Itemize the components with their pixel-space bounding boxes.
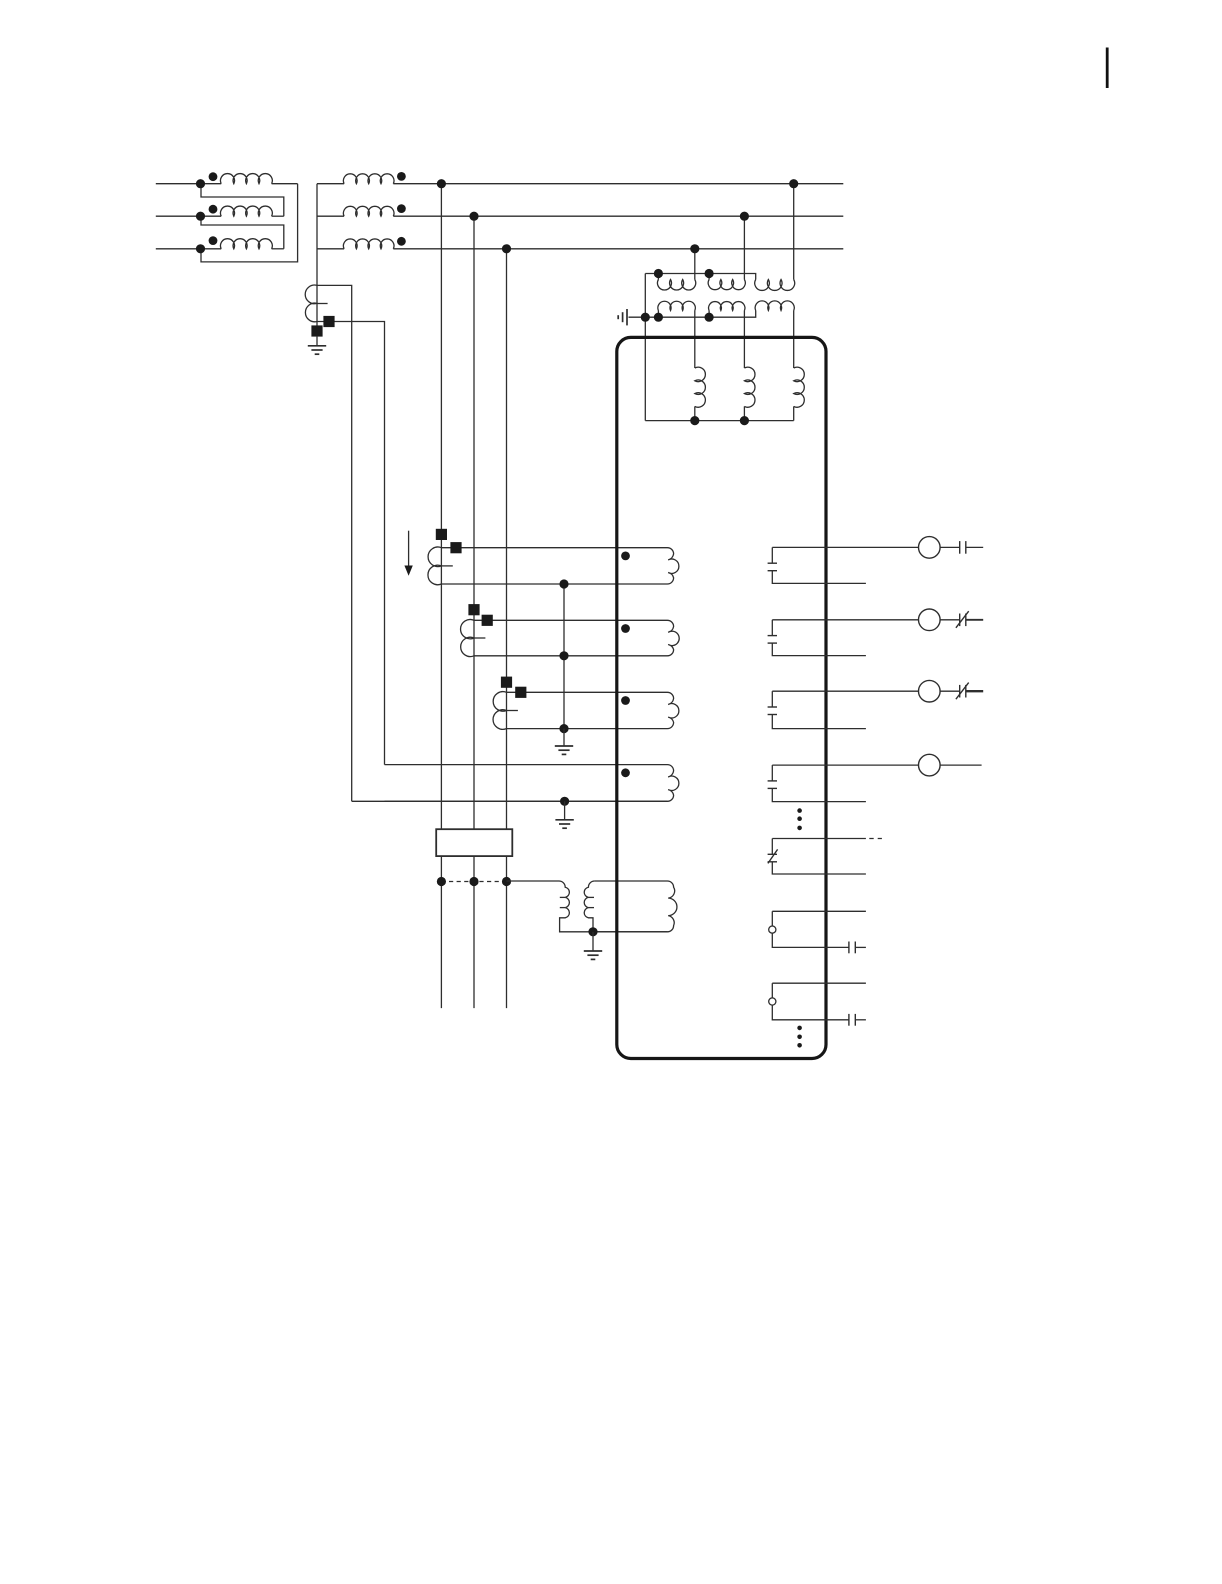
phase C bus line	[156, 248, 221, 250]
VT3 primary winding	[755, 280, 795, 291]
junction node coil common 2	[740, 416, 749, 425]
delta winding W3 (phase C primary)	[220, 239, 272, 249]
dashed tie across feeders	[441, 881, 506, 883]
junction node phase B / delta	[196, 212, 205, 221]
polarity square CT3 secondary	[515, 687, 526, 698]
CT3 secondary loop to relay input coil	[507, 692, 679, 728]
CT common tie wire	[563, 584, 565, 729]
polarity dot wye W4	[397, 172, 406, 181]
polarity dot relay input 4	[621, 768, 630, 777]
junction node VT2 secondary rail	[705, 313, 714, 322]
neutral CT secondary lead bottom	[317, 322, 385, 765]
VT primary tap wire phase A	[793, 184, 795, 280]
ground at transformer neutral	[316, 337, 318, 346]
relay case outline	[617, 337, 826, 1058]
output row 1 contact leads	[772, 546, 918, 548]
relay voltage input wire phase A	[793, 311, 795, 369]
contact slash row 2	[956, 611, 969, 628]
CT2 secondary loop to relay input coil	[474, 620, 679, 656]
output terminal contact row 3	[959, 685, 961, 698]
ground at row4 return	[564, 801, 566, 819]
relay voltage input wire phase C	[694, 311, 696, 369]
polarity dot relay input 1	[621, 552, 630, 561]
relay voltage coil common rail	[645, 420, 793, 422]
junction node VT tap phase A	[789, 179, 798, 188]
phase C feeder wire	[506, 249, 508, 829]
output row 2 contact leads	[772, 619, 918, 621]
junction node VT tap phase B	[740, 212, 749, 221]
aux transformer primary winding	[507, 881, 594, 932]
output row 3 contact leads	[772, 690, 918, 692]
delta closing wire W1 end to phase C junction	[201, 184, 298, 262]
target circle row 3	[919, 680, 941, 702]
neutral CT input loop to relay (row 4)	[385, 765, 679, 802]
neutral conductor below wye	[316, 285, 318, 337]
feeder wires below terminal block	[440, 856, 442, 1008]
aux transformer secondary winding	[584, 881, 594, 932]
output contact bars row 4	[768, 780, 777, 782]
wye winding W6 (phase C secondary) with leads	[317, 248, 344, 250]
junction node CT3 return	[559, 724, 568, 733]
ellipsis between rows 4 and 5	[797, 808, 802, 813]
wye winding W4 (phase A secondary) with leads	[317, 183, 344, 185]
VT2 primary winding	[708, 274, 710, 280]
junction node phase A / delta	[196, 179, 205, 188]
output row 6 contact leads	[772, 910, 866, 912]
junction node coil common 1	[690, 416, 699, 425]
output row 7 contact leads	[772, 982, 866, 984]
junction node row4 ground tap	[560, 797, 569, 806]
output terminal contact row 2	[959, 614, 961, 627]
neutral CT secondary arcs	[305, 285, 317, 322]
polarity square neutral CT secondary	[323, 316, 334, 327]
contact slash row 5	[768, 849, 778, 863]
ground at aux secondary	[592, 932, 594, 951]
junction node phase A feeder tap	[437, 179, 446, 188]
junction node VT secondary rail left	[641, 313, 650, 322]
contact slash row 3	[956, 683, 969, 700]
VT secondary ground rail	[629, 311, 756, 318]
wye neutral wire	[316, 184, 318, 286]
junction node dashed tie phase B	[469, 877, 478, 886]
VT2 secondary winding	[709, 302, 745, 311]
phase A bus line	[156, 183, 221, 185]
CT1 secondary loop to relay input coil	[441, 548, 678, 584]
trip direction arrow	[408, 531, 410, 567]
junction node VT tap phase C	[690, 244, 699, 253]
delta closing wire W2 end to phase A junction	[201, 184, 284, 217]
CT3 phase C secondary arcs	[493, 692, 506, 730]
VT primary tap wire phase C	[694, 249, 696, 280]
junction node VT1 primary rail	[654, 269, 663, 278]
polarity dot delta W3	[209, 236, 218, 245]
relay input coil V1	[695, 367, 706, 407]
VT primary neutral rail	[645, 274, 755, 280]
target circle row 1	[919, 537, 941, 559]
VT common down wire into relay	[644, 274, 646, 421]
junction node CT2 return	[559, 651, 568, 660]
junction node VT1 secondary rail	[654, 313, 663, 322]
output contact bars row 5	[768, 853, 777, 855]
phase B feeder wire	[473, 216, 475, 829]
output row 4 contact leads	[772, 764, 918, 766]
junction node phase C feeder tap	[502, 244, 511, 253]
relay input coil V2	[744, 367, 755, 407]
coil circle row 6	[771, 911, 773, 926]
polarity square neutral CT primary	[311, 325, 322, 336]
polarity square CT2 secondary	[482, 615, 493, 626]
phase A feeder wire	[440, 184, 442, 830]
polarity dot wye W6	[397, 237, 406, 246]
ellipsis below row 7	[797, 1026, 802, 1031]
output contact bars row 1	[768, 562, 777, 564]
aux secondary loop to relay input coil (row 5)	[595, 881, 677, 932]
coil circle row 7	[771, 983, 773, 998]
polarity square CT2 primary	[468, 604, 479, 615]
polarity dot delta W1	[209, 172, 218, 181]
output row 5 contact leads	[772, 838, 866, 840]
output contact bars row 2	[768, 635, 777, 637]
delta winding W1 (phase A primary)	[220, 174, 272, 184]
delta winding W2 (phase B primary)	[220, 206, 272, 216]
delta closing wire W3 end to phase B junction	[201, 216, 284, 249]
ground at CT common	[563, 729, 565, 746]
terminal block box	[436, 829, 512, 856]
polarity square CT3 primary	[501, 677, 512, 688]
VT3 secondary winding	[755, 301, 794, 311]
contact bars on lower lead row 7	[848, 1014, 850, 1026]
output terminal contact row 1	[959, 541, 961, 554]
CT2 phase B secondary arcs	[461, 620, 474, 657]
contact bars on lower lead row 6	[848, 942, 850, 954]
junction node dashed tie phase C	[502, 877, 511, 886]
wye winding W5 (phase B secondary) with leads	[317, 215, 344, 217]
ground at VT secondaries	[618, 309, 627, 325]
VT primary tap wire phase B	[743, 216, 745, 279]
polarity dot wye W5	[397, 204, 406, 213]
output contact bars row 3	[768, 706, 777, 708]
phase B bus line	[156, 215, 221, 217]
neutral CT secondary lead top	[317, 285, 352, 801]
junction node aux secondary common	[588, 927, 597, 936]
polarity dot delta W2	[209, 205, 218, 214]
polarity square CT1 secondary	[450, 542, 461, 553]
relay input coil V3	[794, 367, 805, 407]
VT1 primary winding	[657, 274, 659, 280]
dashed continuation row 5	[869, 838, 882, 840]
junction node phase B feeder tap	[469, 212, 478, 221]
target circle row 2	[919, 609, 941, 631]
junction node dashed tie phase A	[437, 877, 446, 886]
polarity square CT1 primary	[436, 529, 447, 540]
polarity dot relay input 2	[621, 624, 630, 633]
junction node VT2 primary rail	[705, 269, 714, 278]
CT1 phase A secondary arcs	[428, 547, 441, 585]
page edge crop mark	[1106, 48, 1109, 89]
target circle row 4	[919, 754, 941, 776]
junction node CT1 return	[559, 579, 568, 588]
relay voltage input wire phase B	[743, 311, 745, 369]
junction node phase C / delta	[196, 244, 205, 253]
polarity dot relay input 3	[621, 696, 630, 705]
VT1 secondary winding	[658, 301, 695, 310]
